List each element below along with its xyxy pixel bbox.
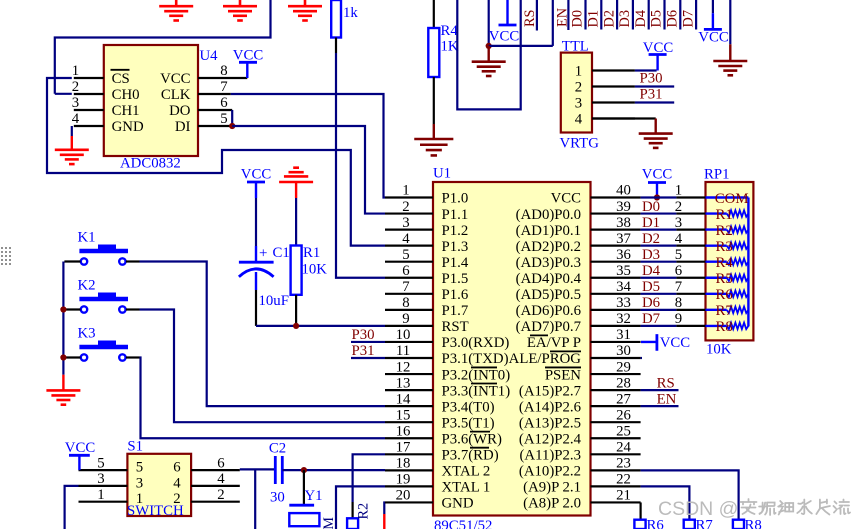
svg-text:4: 4 [402,231,410,247]
pin number 3 inside (S1) [136,475,143,491]
pin name (AD0)P0.0 (U1) [516,207,581,223]
pin number 34 (U1) [616,279,631,295]
designator R1 [303,245,320,261]
svg-text:D1: D1 [642,215,660,231]
wire C2 to XTAL2 [282,469,385,471]
pin 1 of TTL [592,69,635,71]
pin name (AD7)P0.7 (U1) [516,319,581,335]
svg-text:5: 5 [675,247,682,263]
pin number 6 (U4) [220,95,227,111]
svg-text:3: 3 [72,95,79,111]
label R1 (RP1) [716,207,733,223]
svg-text:VCC: VCC [160,71,191,87]
svg-text:1: 1 [72,63,79,79]
pin name (A11)P2.3 (U1) [519,448,581,464]
pin 4 of U4 (GND) [74,125,104,127]
svg-text:CLK: CLK [161,87,191,103]
svg-text:1K: 1K [441,39,459,55]
pin 6 of U1 [385,277,433,279]
svg-text:7: 7 [675,279,682,295]
wire TTL pin1 to VCC [635,69,657,71]
ground (maroon) at LCD K [713,44,747,75]
svg-text:19: 19 [396,472,411,488]
wire LCD VL [457,0,520,109]
pin 40 of U1 [591,196,641,198]
pin 18 of U1 [385,469,433,471]
svg-text:P3.3(INT1): P3.3(INT1) [442,383,511,399]
ground (red) at U4 GND [55,136,89,164]
svg-text:8: 8 [675,295,682,311]
pin number 31 (U1) [616,327,631,343]
pin number 37 (U1) [616,231,631,247]
wire D0 stub (top) [584,0,586,30]
svg-text:D7: D7 [642,311,660,327]
svg-text:VCC: VCC [65,440,96,456]
watermark CSDN @ [658,498,738,520]
pin number 7 (U1) [402,279,409,295]
label COM [715,191,749,207]
pin number 8 (U4) [220,63,227,79]
pin 5 of U1 [385,261,433,263]
pin number 1 (U1) [402,183,409,199]
svg-text:33: 33 [616,295,631,311]
junction VCC pin40 [654,194,660,200]
svg-text:P1.7: P1.7 [442,303,469,319]
pin number 8 (U1) [402,295,409,311]
pin 2 of U1 [385,212,433,214]
pin 38 of U1 [591,229,641,231]
designator C1 [273,245,290,261]
svg-text:6: 6 [220,95,227,111]
svg-text:K1: K1 [78,230,96,246]
pin 31 of U1 [591,341,641,343]
svg-text:(AD3)P0.3: (AD3)P0.3 [516,255,581,271]
svg-text:(A10)P2.2: (A10)P2.2 [519,464,581,480]
pin number 6 (U1) [402,263,409,279]
net label D2 (rotated) [601,10,617,27]
ground (red) at U1 GND (cut) [383,514,385,529]
pin 17 of U1 [385,453,433,455]
net label RS (rotated) [522,9,538,27]
wire D3 stub (top) [632,0,634,30]
pin 2 of RP1 [676,212,705,214]
pin name (A12)P2.4 (U1) [519,431,582,447]
label R4 [441,23,459,39]
pin name CS (U4) [112,71,130,87]
pin name ALE/PROG (U1) [509,351,582,367]
wire U1 pin38 to RP1 pin3 [641,229,677,231]
svg-text:+: + [259,246,267,262]
net label D4 (rotated) [633,10,649,27]
pin 14 of U1 [385,405,433,407]
svg-text:P1.6: P1.6 [442,287,469,303]
designator R7 [696,517,713,529]
resistor element R7 zigzag [727,307,749,313]
svg-text:21: 21 [616,488,631,504]
svg-text:25: 25 [616,423,631,439]
svg-text:5: 5 [220,111,227,127]
wire K common [62,262,64,375]
pin number 12 (U1) [396,359,411,375]
svg-text:40: 40 [616,183,631,199]
pin name P1.1 (U1) [442,207,469,223]
wire U1 pin36 to RP1 pin5 [641,261,677,263]
pin name (A10)P2.2 (U1) [519,464,581,480]
pin name XTAL 2 (U1) [442,464,491,480]
resistor element R6 lead [706,293,727,295]
pin number 6 outside (S1) [217,455,224,471]
pin number 4 (U1) [402,231,410,247]
svg-text:37: 37 [616,231,631,247]
pin name (A15)P2.7 (U1) [519,383,581,399]
watermark char xi [778,501,793,515]
pin of R4 lower [433,77,435,124]
pin 21 of U1 [591,501,641,503]
wire U1 pin33 to RP1 pin8 [641,309,677,311]
switch K3 [64,326,139,361]
wire P2.1 to R7 [641,486,690,519]
resistor element R3 lead [706,244,727,246]
pin number 6 inside (S1) [173,460,180,476]
svg-text:DI: DI [175,119,191,135]
pin number 2 inside (S1) [173,491,180,507]
net label EN (U1) [657,391,677,407]
pin 11 of U1 [385,357,433,359]
pin 7 of U4 (CLK) [198,93,231,95]
resistor element R2 zigzag [727,226,749,232]
net label D3 [642,247,660,263]
switch K2 [64,278,139,313]
net label P31 (TTL) [640,87,663,103]
svg-text:2: 2 [575,80,582,96]
pin number 30 (U1) [616,343,631,359]
designator TTL [562,39,589,55]
wire TTL pin4 to ground [592,117,656,119]
pin name CH0 (U4) [112,87,140,103]
pin name (AD3)P0.3 (U1) [516,255,581,271]
net label D0 [642,199,660,215]
resistor element R5 lead [706,277,727,279]
pin name CH1 (U4) [112,103,140,119]
value 1K [441,39,459,55]
svg-text:(AD2)P0.2: (AD2)P0.2 [516,239,581,255]
pin 4 of U1 [385,245,433,247]
svg-text:P1.2: P1.2 [442,223,469,239]
pin number 14 (U1) [396,391,411,407]
svg-text:R8: R8 [745,517,762,529]
resistor element R7 lead [706,309,727,311]
pin number 3 (U4) [72,95,79,111]
svg-text:5: 5 [402,247,409,263]
pin 5 of U4 (DI) [198,125,232,127]
svg-text:89C51/52: 89C51/52 [434,518,492,529]
svg-text:(A14)P2.6: (A14)P2.6 [519,399,581,415]
svg-text:(A9)P 2.1: (A9)P 2.1 [523,480,581,496]
pin 36 of U1 [591,261,641,263]
wire K3 to U1 P3.6 [140,358,386,439]
pin 3 of U1 [385,229,433,231]
pin name P1.6 (U1) [442,287,469,303]
pin 7 of U1 [385,293,433,295]
label R2 (RP1) [716,223,733,239]
pin 22 of U1 [591,485,641,487]
wire RS stub (U1 pin28) [641,389,679,391]
designator R6 [647,517,664,529]
pin number 23 (U1) [616,456,631,472]
switch K1 [64,230,139,265]
pin 39 of U1 [591,212,641,214]
svg-text:(A12)P2.4: (A12)P2.4 [519,431,582,447]
svg-text:20: 20 [396,488,411,504]
svg-text:31: 31 [616,327,631,343]
wire D1 stub (top) [600,0,602,30]
svg-text:RS: RS [657,375,675,391]
svg-text:P3.0(RXD): P3.0(RXD) [442,335,510,351]
wire U4 DI to U1 P1.1 [232,126,385,214]
svg-text:ALE/PROG: ALE/PROG [509,351,582,367]
label R7 (RP1) [716,303,733,319]
svg-text:CSDN @: CSDN @ [658,498,738,520]
pin number 26 (U1) [616,407,631,423]
wire K1 to U1 P3.4 [140,262,386,407]
pin 10 of U1 [385,341,433,343]
pin name P1.4 (U1) [442,255,469,271]
pin number 32 (U1) [616,311,631,327]
designator U1 [433,166,451,182]
svg-text:P3.6(WR): P3.6(WR) [442,431,502,447]
pin name P1.0 (U1) [442,191,469,207]
svg-text:(AD1)P0.1: (AD1)P0.1 [516,223,581,239]
pin number 2 outside (S1) [217,487,224,503]
pin number 33 (U1) [616,295,631,311]
svg-text:RP1: RP1 [704,166,730,182]
pin R2 upper [352,502,354,518]
pin 2 of S1 [191,501,240,503]
pin number 2 (TTL) [575,80,582,96]
svg-text:PSEN: PSEN [545,367,581,383]
svg-text:P31: P31 [640,87,663,103]
pin number 25 (U1) [616,423,631,439]
wire U1 pin34 to RP1 pin7 [641,293,677,295]
wire D5 stub (top) [663,0,665,30]
pin 28 of U1 [591,389,641,391]
pin number 2 (RP1) [675,199,682,215]
pin number 27 (U1) [616,391,631,407]
bus of RP1 [747,198,749,327]
svg-text:R2: R2 [716,223,733,239]
overline INT0 [471,366,497,368]
ground (red, inverted) above R1 [279,168,313,198]
designator C2 [269,441,286,457]
svg-text:D0: D0 [642,199,660,215]
svg-text:U1: U1 [433,166,451,182]
wire U4 CLK to U1 P1.0 [231,94,385,198]
wire U4 DO to DI [231,110,233,126]
wire VSS to RW [489,45,553,47]
pin 13 of U1 [385,389,433,391]
svg-text:(A8)P 2.0: (A8)P 2.0 [523,496,581,512]
pin number 9 (U1) [402,311,409,327]
wire P3.7 to R2 [353,454,385,502]
wire into R4 from top [433,0,435,28]
pin name (AD5)P0.5 (U1) [516,287,581,303]
connector S1 body [127,454,191,516]
svg-text:P1.4: P1.4 [442,255,469,271]
wire CH0 input from top [55,0,271,94]
lead COM [706,196,749,198]
designator R2 (rotated) [355,503,371,520]
resistor 1k (top) [331,0,341,38]
ground (maroon) below R4 [414,124,453,155]
svg-text:VCC: VCC [642,166,673,182]
svg-text:P31: P31 [352,343,375,359]
resistor element R1 zigzag [727,210,749,216]
pin name P3.1(TXD) (U1) [442,351,509,367]
svg-text:D7: D7 [680,10,696,27]
svg-text:15: 15 [396,407,411,423]
svg-text:8: 8 [220,63,227,79]
pin 25 of U1 [591,437,641,439]
svg-text:2: 2 [402,199,409,215]
pin 1 of U4 (CS) [74,77,104,79]
pin name (A14)P2.6 (U1) [519,399,581,415]
value 10uF [259,293,289,309]
svg-text:(A11)P2.3: (A11)P2.3 [519,448,581,464]
svg-text:1: 1 [675,183,682,199]
svg-text:1: 1 [97,487,104,503]
pin name DI (U4) [175,119,191,135]
pin name P1.7 (U1) [442,303,469,319]
pin name EA/VP P (U1) [527,335,581,351]
svg-text:VCC: VCC [489,29,520,45]
part name 89C51/52 [434,518,492,529]
pin 5 of RP1 [676,261,705,263]
svg-text:K3: K3 [78,326,96,342]
svg-text:P30: P30 [352,327,375,343]
capacitor C2 [275,456,282,484]
watermark char shui [797,500,812,515]
svg-text:D5: D5 [642,279,660,295]
svg-text:(AD4)P0.4: (AD4)P0.4 [516,271,582,287]
svg-text:3: 3 [402,215,409,231]
svg-text:EN: EN [657,391,677,407]
svg-text:3: 3 [97,471,104,487]
net label P31 (U1) [352,343,375,359]
svg-text:(A13)P2.5: (A13)P2.5 [519,415,581,431]
pin number 3 (U1) [402,215,409,231]
pin number 16 (U1) [396,423,411,439]
resistor pack RP1 body [706,182,754,340]
pin name GND (U4) [112,119,144,135]
svg-text:16: 16 [396,423,411,439]
net label D2 [642,231,660,247]
junction VSS/ground [486,43,492,49]
wire 1k to U1 P1.5 [336,53,385,278]
svg-text:K2: K2 [78,278,96,294]
wire ground to R1 [295,198,297,246]
pin name P3.6(WR) (U1) [442,431,502,447]
svg-text:9: 9 [402,311,409,327]
pin 24 of U1 [591,453,641,455]
net label D0 (rotated) [570,10,586,27]
svg-text:Y1: Y1 [305,488,323,504]
pin name P1.5 (U1) [442,271,469,287]
resistor element R6 zigzag [727,291,749,297]
wire TTL pin3 (P31) [635,101,674,103]
net label D1 (rotated) [586,10,602,27]
pin 9 of RP1 [676,325,705,327]
wire D6 stub (top) [679,0,681,30]
pin number 5 outside (S1) [97,455,104,471]
svg-text:27: 27 [616,391,631,407]
resistor element R4 lead [706,261,727,263]
svg-text:2: 2 [72,79,79,95]
svg-text:VCC: VCC [660,335,691,351]
svg-text:R4: R4 [441,23,459,39]
svg-text:TTL: TTL [562,39,589,55]
IC U4 ADC0832 body [104,45,198,156]
svg-text:14: 14 [396,391,411,407]
pin 16 of U1 [385,437,433,439]
pin number 7 (U4) [220,79,227,95]
pin 9 of U1 [385,325,433,327]
pin 1 of RP1 [676,196,705,198]
label 1k [343,5,358,21]
net label D6 [642,295,660,311]
pin name DO (U4) [169,103,191,119]
pin 3 of U4 (CH1) [74,109,104,111]
pin 19 of U1 [385,485,433,487]
svg-text:P3.5(T1): P3.5(T1) [442,415,495,431]
overline PROG [550,350,581,352]
svg-text:6: 6 [402,263,409,279]
svg-text:4: 4 [217,471,225,487]
label R6 (RP1) [716,287,733,303]
pin number 1 (TTL) [575,64,582,80]
pin 33 of U1 [591,309,641,311]
pin 12 of U1 [385,373,433,375]
resistor element R2 lead [706,228,727,230]
svg-text:R1: R1 [716,207,733,223]
svg-text:4: 4 [173,475,181,491]
pin number 3 outside (S1) [97,471,104,487]
pin name XTAL 1 (U1) [442,480,491,496]
pin number 2 (U1) [402,199,409,215]
power VCC at LCD A [698,13,729,45]
svg-text:13: 13 [396,375,411,391]
net label D3 (rotated) [617,10,633,27]
svg-text:R1: R1 [303,245,320,261]
svg-text:P3.1(TXD): P3.1(TXD) [442,351,509,367]
pin 8 of U1 [385,309,433,311]
pin 20 of U1 [385,501,433,503]
wire D4 stub (top) [648,0,650,30]
svg-text:R7: R7 [716,303,733,319]
svg-text:C1: C1 [273,245,290,261]
wire P30 to U1 pin10 [351,341,385,343]
pin 3 of RP1 [676,229,705,231]
wire P2.2 to R8 [641,470,739,519]
svg-text:30: 30 [616,343,631,359]
wire S1 pin3 down [65,486,79,529]
svg-text:35: 35 [616,263,631,279]
wire D2 stub (top) [616,0,618,30]
part name SWITCH [127,503,184,519]
wire U1 pin39 to RP1 pin2 [641,212,677,214]
pin 32 of U1 [591,325,641,327]
svg-text:R4: R4 [716,255,734,271]
watermark char ni [759,503,776,516]
